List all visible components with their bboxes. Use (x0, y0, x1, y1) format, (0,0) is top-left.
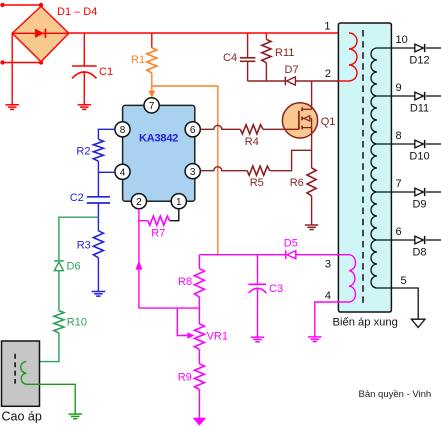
label C2 (70, 192, 84, 204)
label copyright (359, 389, 432, 400)
resistor R1 (147, 48, 157, 73)
diode D12 (415, 44, 425, 52)
label R2 (76, 145, 90, 157)
svg-text:9: 9 (396, 82, 402, 94)
label pin 2 (325, 68, 331, 80)
wire drain (311, 81, 313, 109)
label C3 (269, 283, 283, 295)
wire main rail (69, 32, 349, 34)
pin 8 (115, 122, 130, 137)
diode D9 (415, 188, 425, 196)
wire D9 output (426, 191, 441, 193)
svg-text:5: 5 (401, 275, 407, 287)
ground C1 (78, 105, 91, 110)
resistor R5 (247, 166, 270, 175)
wire flyback to ground (26, 384, 75, 414)
wire pin3 (338, 254, 349, 256)
wire tap 7 (377, 191, 415, 193)
svg-text:8: 8 (120, 125, 126, 136)
label R5 (250, 177, 264, 189)
wire R1 to pin7 (148, 73, 155, 98)
label D7 (285, 64, 299, 76)
capacitor C2 (87, 197, 110, 217)
flyback transformer box Cao ap (2, 341, 40, 406)
op-amp U1 KA3842 body (123, 105, 195, 201)
wire rail to R11 (265, 33, 267, 39)
svg-text:4: 4 (325, 290, 331, 302)
svg-text:D9: D9 (412, 199, 426, 211)
resistor R2 (93, 139, 103, 161)
wire R8 top (198, 255, 200, 269)
wire snubber bottom (248, 80, 285, 82)
wire D8 output (426, 239, 441, 241)
label Bien ap xung (333, 317, 398, 329)
svg-text:R9: R9 (178, 371, 192, 383)
wire C2 junction to D6 branch (59, 217, 99, 260)
svg-text:R7: R7 (151, 227, 165, 239)
potentiometer VR1 (177, 308, 204, 349)
wire pin 5 (377, 288, 418, 319)
label D10 (409, 151, 429, 163)
diode D10 (415, 140, 425, 148)
svg-text:Q1: Q1 (321, 116, 336, 128)
label D1-D4 (57, 6, 97, 18)
svg-text:C2: C2 (70, 192, 84, 204)
primary winding 1-2 (349, 33, 357, 81)
resistor R8 (194, 269, 204, 297)
svg-text:D5: D5 (284, 238, 298, 250)
label R1 (131, 54, 145, 66)
capacitor C1 (72, 33, 97, 105)
label D5 (284, 238, 298, 250)
svg-text:R4: R4 (245, 136, 259, 148)
wire AC input bottom (0, 60, 43, 64)
wire D10 output (426, 143, 441, 145)
wire R3 to ground (97, 258, 99, 292)
wire R8 bottom (198, 297, 200, 308)
label tap 9 (396, 82, 402, 94)
wire source to R6 (311, 128, 313, 168)
svg-text:6: 6 (396, 226, 402, 238)
svg-text:Cao áp: Cao áp (2, 410, 42, 424)
ground aux winding (308, 337, 321, 342)
diode D11 (415, 92, 425, 100)
svg-text:D8: D8 (412, 247, 426, 259)
wire pin2 to drain (313, 80, 350, 82)
svg-text:3: 3 (325, 258, 331, 270)
svg-text:1: 1 (176, 197, 182, 208)
svg-text:R10: R10 (67, 316, 87, 328)
bridge rectifier D1-D4 (12, 6, 69, 61)
svg-text:D7: D7 (285, 64, 299, 76)
wire tap 10 (377, 47, 415, 49)
svg-text:Biến áp xung: Biến áp xung (333, 317, 398, 329)
wire rail to C4 (247, 33, 249, 58)
label tap 8 (396, 130, 402, 142)
wire C3 top (257, 255, 259, 285)
label pin 5 (401, 275, 407, 287)
svg-text:C1: C1 (99, 66, 113, 78)
pin 7 (144, 98, 159, 113)
svg-text:C3: C3 (269, 283, 283, 295)
svg-text:R6: R6 (290, 177, 304, 189)
label D11 (410, 103, 429, 115)
wire pin1 to R7 (170, 209, 179, 221)
wire rail to R1 (151, 33, 153, 48)
flyback winding (21, 362, 27, 385)
wire VR1 to R9 (198, 349, 200, 363)
wire pin2 line down (136, 221, 143, 308)
diode D6 (54, 261, 64, 271)
ground R3 (92, 292, 105, 297)
svg-text:D1 – D4: D1 – D4 (57, 6, 97, 18)
transistor Q1 (282, 103, 317, 138)
pin 6 (185, 122, 200, 137)
svg-text:R11: R11 (275, 47, 294, 59)
svg-text:R1: R1 (131, 54, 145, 66)
wire R11 bottom (265, 63, 267, 81)
svg-text:C4: C4 (223, 52, 237, 64)
label tap 7 (396, 178, 402, 190)
wire R5 to source (270, 150, 312, 170)
resistor R10 (54, 311, 64, 333)
ground R6 (305, 225, 318, 230)
label D6 (67, 261, 81, 273)
secondary winding 10-5 (371, 48, 377, 288)
label D9 (412, 199, 426, 211)
diode D8 (415, 236, 425, 244)
pin 2 (131, 194, 146, 209)
svg-text:R5: R5 (250, 177, 264, 189)
label R11 (275, 47, 294, 59)
ground R9 (solid) (193, 418, 207, 426)
label VR1 (207, 331, 228, 343)
wire R1 branch to Vcc node (152, 86, 218, 255)
wire tap 6 (377, 239, 415, 241)
pin 3 (185, 164, 200, 179)
diode D7 (285, 77, 295, 86)
svg-text:3: 3 (190, 167, 196, 178)
label R10 (67, 316, 87, 328)
wire R10 to flyback coil (26, 333, 59, 362)
wire AC input top (0, 3, 43, 7)
wire R2 to pin4 junction (97, 161, 99, 197)
svg-text:2: 2 (325, 68, 331, 80)
resistor R9 (194, 364, 204, 390)
diode D5 (286, 250, 296, 259)
svg-text:R8: R8 (178, 276, 192, 288)
wire pin4 to ground (315, 302, 349, 337)
svg-text:KA3842: KA3842 (139, 133, 178, 145)
capacitor C3 (248, 284, 266, 337)
svg-text:2: 2 (136, 197, 142, 208)
svg-text:1: 1 (324, 20, 330, 32)
label tap 10 (396, 34, 408, 46)
wire tap 8 (377, 143, 415, 145)
label pin 3 (325, 258, 331, 270)
wire R9 down (198, 390, 200, 419)
wire pin6 to R4 (200, 125, 240, 129)
svg-text:Bản quyền - Vinh: Bản quyền - Vinh (359, 389, 432, 400)
output arrow pin5 (411, 319, 425, 327)
wire D11 output (426, 95, 441, 97)
svg-text:R3: R3 (77, 240, 91, 252)
svg-text:4: 4 (120, 167, 126, 178)
ground C3 (251, 337, 264, 342)
svg-text:R2: R2 (76, 145, 90, 157)
label R8 (178, 276, 192, 288)
label D12 (409, 55, 429, 67)
label Cao ap (2, 410, 42, 424)
label R7 (151, 227, 165, 239)
svg-text:10: 10 (396, 34, 408, 46)
svg-text:VR1: VR1 (207, 331, 228, 343)
transformer core box (338, 23, 391, 312)
wire pin8 to R2 (98, 129, 115, 139)
wire pin3 to R5 (200, 167, 247, 171)
ground bridge (6, 105, 19, 110)
wire tap 9 (377, 95, 415, 97)
pin 1 (171, 194, 186, 209)
svg-text:7: 7 (149, 101, 155, 112)
svg-text:6: 6 (190, 125, 196, 136)
label R6 (290, 177, 304, 189)
wire pin2 to R7 (139, 209, 148, 221)
resistor R6 (307, 168, 316, 196)
svg-text:D10: D10 (409, 151, 429, 163)
ground flyback (69, 414, 82, 419)
label R3 (77, 240, 91, 252)
resistor R7 (148, 216, 170, 225)
wire D7 to drain node (295, 80, 312, 82)
label tap 6 (396, 226, 402, 238)
capacitor C4 (240, 58, 256, 81)
label C4 (223, 52, 237, 64)
resistor R3 (93, 231, 103, 258)
wire Vcc node (199, 254, 285, 256)
label D8 (412, 247, 426, 259)
wire bottom node (139, 307, 200, 309)
wire R6 to ground (311, 196, 313, 225)
pin 4 (115, 164, 130, 179)
resistor R11 (262, 39, 271, 62)
wire D5 to pin3 (296, 254, 339, 256)
wire C2 to R3 (97, 217, 99, 231)
resistor R4 (240, 125, 263, 134)
wire D6 to R10 (58, 271, 60, 311)
wire junction to pin4 (98, 171, 115, 173)
label pin 1 (324, 20, 330, 32)
label Q1 (321, 116, 336, 128)
label C1 (99, 66, 113, 78)
svg-text:D6: D6 (67, 261, 81, 273)
svg-text:7: 7 (396, 178, 402, 190)
label R9 (178, 371, 192, 383)
svg-text:D11: D11 (410, 103, 429, 115)
wire bridge left to ground (11, 33, 13, 105)
wire D12 output (426, 47, 441, 49)
label R4 (245, 136, 259, 148)
svg-text:8: 8 (396, 130, 402, 142)
wire R4 to gate (263, 128, 299, 130)
svg-text:D12: D12 (409, 55, 429, 67)
aux winding 3-4 (349, 255, 356, 302)
label pin 4 (325, 290, 331, 302)
